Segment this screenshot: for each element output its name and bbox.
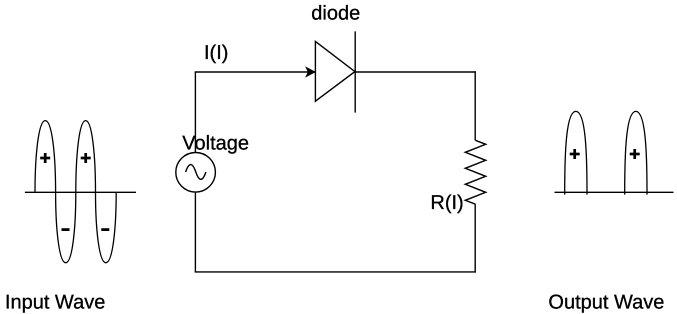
minus sign input lobe 1 <box>62 228 70 231</box>
plus sign output hump 2 <box>630 149 640 159</box>
plus sign input lobe 1 <box>40 153 50 163</box>
wire right vertical bottom (from resistor) <box>474 204 476 273</box>
svg-text:I(I): I(I) <box>204 42 228 64</box>
plus sign input lobe 2 <box>81 153 91 163</box>
wire left vertical top (node to voltage source) <box>194 72 196 153</box>
minus sign input lobe 2 <box>101 228 109 231</box>
voltage source V1 circle <box>176 153 216 193</box>
svg-text:R(I): R(I) <box>430 192 463 214</box>
input wave sine curve <box>35 121 116 263</box>
plus sign output hump 1 <box>570 149 580 159</box>
wire top left segment <box>195 71 316 73</box>
svg-text:Voltage: Voltage <box>182 132 249 154</box>
output wave axis <box>555 191 674 193</box>
svg-text:diode: diode <box>311 3 360 25</box>
diode D1 triangle <box>315 41 355 101</box>
svg-text:Input Wave: Input Wave <box>5 291 105 313</box>
wire left vertical bottom <box>194 192 196 272</box>
output wave hump 1 <box>565 111 587 194</box>
resistor R(I) zigzag <box>465 140 485 204</box>
wire right vertical top (to resistor) <box>474 71 476 140</box>
diode D1 cathode bar <box>354 31 356 112</box>
current arrow I(I) <box>306 68 315 77</box>
svg-text:Output Wave: Output Wave <box>548 292 664 314</box>
input wave axis <box>25 191 136 193</box>
voltage source sine symbol <box>186 165 206 180</box>
wire bottom <box>195 271 476 273</box>
wire top right segment <box>355 71 476 73</box>
output wave hump 2 <box>625 111 647 194</box>
